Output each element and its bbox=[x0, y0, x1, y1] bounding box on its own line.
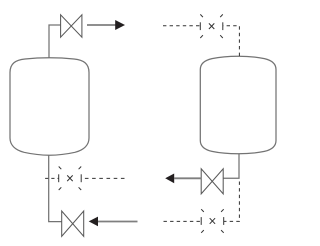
wire: V1 bottom outlet pipe bbox=[49, 155, 62, 221]
arrow A1 (flow out, right) bbox=[87, 20, 125, 30]
arrow A2 (flow in, pointing left) bbox=[89, 217, 138, 227]
vessel V1 (left tank) bbox=[10, 58, 89, 155]
wire: dashed line through left bottom (inactive) bbox=[45, 177, 124, 179]
valve XV4 (dashed, top-right) bbox=[200, 14, 223, 38]
valve XV2 (bottom-left, solid) bbox=[62, 211, 84, 236]
valve XV3 (dashed, on left bottom line) bbox=[59, 167, 81, 191]
wire: V2 bottom outlet pipe bbox=[223, 154, 239, 178]
valve XV1 (top-left, solid) bbox=[61, 15, 82, 37]
valve XV5 (bottom-right, solid) bbox=[201, 169, 223, 194]
vessel V2 (right tank) bbox=[200, 56, 276, 154]
wire: dashed inlet line to V2 top (inactive) bbox=[163, 26, 239, 56]
wire: V1 top outlet pipe bbox=[49, 25, 61, 58]
valve XV6 (dashed, bottom-right) bbox=[201, 209, 224, 233]
wire: dashed bypass line bottom-right (inactive) bbox=[164, 182, 240, 222]
arrow A3 (flow out, pointing left) bbox=[165, 174, 201, 184]
